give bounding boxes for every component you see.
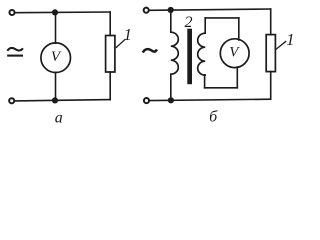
wire: right branch vertical lower, circuit b (270, 72, 272, 100)
wire: voltmeter branch lower, circuit a (55, 72, 57, 100)
svg-text:1: 1 (124, 25, 132, 44)
wire: right branch vertical lower, circuit a (109, 72, 111, 100)
wire: bottom horizontal, circuit b (150, 99, 271, 100)
svg-text:б: б (209, 109, 218, 126)
leader line to label 1 (circuit b) (276, 42, 285, 49)
transformer 2 primary winding (171, 32, 179, 74)
resistor 1 (circuit a) (106, 36, 115, 73)
wire: secondary loop top horizontal (205, 17, 239, 19)
terminal (bottom-left, circuit b) (144, 98, 149, 103)
svg-text:2: 2 (185, 14, 193, 31)
resistor 1 (circuit b) (266, 35, 275, 72)
leader line to label 1 (circuit a) (116, 40, 125, 48)
transformer core bar (187, 29, 192, 84)
voltmeter circle (circuit a) (41, 43, 71, 73)
node: junction dot bottom, circuit b (168, 97, 174, 103)
wire: right branch vertical upper, circuit a (109, 12, 111, 36)
source symbol ≃ (AC/DC), circuit a (7, 48, 23, 56)
wire: right branch vertical upper, circuit b (270, 9, 272, 35)
wire: voltmeter branch upper, circuit a (55, 12, 57, 43)
wire: bottom horizontal, circuit a (15, 100, 110, 101)
wire: secondary loop bottom horizontal (205, 87, 238, 89)
wire: top horizontal, circuit b (150, 9, 271, 10)
svg-text:а: а (55, 109, 63, 126)
wire: loop vertical into voltmeter bottom (236, 67, 238, 88)
wire: primary lead upper, circuit b (170, 10, 172, 32)
node: junction dot top, circuit b (168, 7, 174, 13)
wire: primary lead lower, circuit b (170, 74, 172, 100)
wire: secondary lead bottom (204, 75, 206, 88)
terminal (bottom-left, circuit a) (9, 98, 14, 103)
terminal (top-left, circuit a) (9, 10, 14, 15)
transformer 2 secondary winding (198, 33, 205, 75)
source symbol ~ (AC), circuit b (143, 49, 157, 53)
node: junction dot top, circuit a (52, 9, 58, 15)
node: junction dot bottom, circuit a (52, 97, 58, 103)
wire: loop right vertical into voltmeter top (238, 18, 240, 40)
wire: secondary lead top, circuit b (204, 18, 206, 33)
terminal (top-left, circuit b) (144, 8, 149, 13)
wire: top horizontal, circuit a (16, 11, 111, 14)
svg-text:1: 1 (286, 30, 294, 49)
voltmeter circle (circuit b) (220, 39, 249, 68)
